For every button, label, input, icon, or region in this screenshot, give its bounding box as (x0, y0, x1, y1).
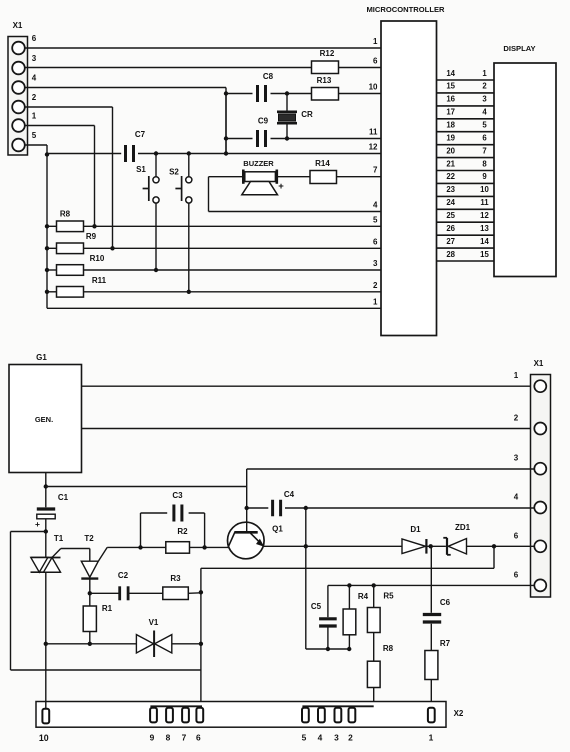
pin label MCU 10 (369, 83, 378, 92)
resistor R3 (163, 574, 201, 600)
resistor R14 (277, 159, 337, 184)
capacitor C5 (311, 585, 337, 651)
connector X2 pin 3 (334, 708, 341, 743)
svg-text:DISPLAY: DISPLAY (503, 44, 535, 53)
svg-text:1: 1 (373, 37, 378, 46)
svg-text:D1: D1 (410, 525, 421, 534)
svg-text:R3: R3 (170, 574, 181, 583)
connector X2 pin 7 (182, 708, 189, 743)
svg-text:MICROCONTROLLER: MICROCONTROLLER (366, 5, 445, 14)
wire V1 row left (44, 642, 137, 646)
wire MCU pin 26 to display pin 13 (437, 224, 495, 235)
wire G1 bottom rail (44, 473, 48, 508)
svg-text:7: 7 (482, 146, 486, 155)
switch S2 (169, 151, 192, 294)
pin label MCU 3 (373, 259, 378, 268)
svg-text:9: 9 (482, 172, 487, 181)
resistor R7 (425, 639, 451, 708)
svg-text:1: 1 (373, 297, 378, 306)
svg-text:6: 6 (482, 134, 487, 143)
svg-text:T1: T1 (54, 534, 64, 543)
resistor R8 (45, 210, 381, 232)
svg-text:R8: R8 (60, 210, 71, 219)
wire T1 gate to T2 (52, 549, 90, 562)
svg-text:11: 11 (480, 198, 489, 207)
wire MCU pin 23 to display pin 10 (437, 185, 495, 196)
wire X2 bus bar right (302, 705, 373, 707)
pin label MCU 6 (373, 57, 378, 66)
wire MCU pin 16 to display pin 3 (437, 95, 495, 106)
connector X2 pin 4 (318, 708, 325, 743)
svg-text:CR: CR (301, 110, 313, 119)
connector X1 right pin 3 contact (514, 454, 547, 475)
wire X1-5 to left rail (25, 145, 49, 308)
capacitor C2 (90, 571, 163, 600)
switch S1 (136, 151, 159, 272)
svg-text:R14: R14 (315, 159, 330, 168)
capacitor C8 (226, 72, 289, 102)
pin label MCU 4 (373, 201, 378, 210)
capacitor C3 (141, 491, 205, 547)
svg-text:R12: R12 (320, 49, 335, 58)
node A vertical (224, 91, 228, 155)
diac V1 (136, 618, 201, 657)
wire C4 row to X1-4 (306, 507, 534, 509)
pin label MCU 2 (373, 281, 378, 290)
resistor R10 (45, 254, 381, 275)
wire feedback step (201, 546, 494, 568)
svg-text:5: 5 (302, 733, 307, 743)
pin label MCU 1 (373, 37, 378, 46)
wire MCU pin 17 to display pin 4 (437, 108, 495, 119)
svg-text:6: 6 (32, 34, 37, 43)
capacitor C4 (247, 490, 308, 516)
display U2 (494, 44, 556, 277)
svg-text:15: 15 (446, 82, 455, 91)
connector X2 (36, 702, 464, 728)
wire G1 to X1-1 (82, 385, 534, 387)
wire R12 to MCU pin 6 (339, 67, 382, 69)
svg-text:X2: X2 (454, 709, 464, 718)
wire net K vertical (199, 568, 203, 706)
generator G1 (9, 353, 82, 473)
triac T1 (31, 534, 64, 572)
svg-text:21: 21 (446, 159, 455, 168)
svg-text:26: 26 (446, 224, 455, 233)
resistor R2 (166, 527, 190, 553)
svg-text:Q1: Q1 (272, 525, 283, 534)
svg-text:12: 12 (480, 211, 489, 220)
svg-text:R2: R2 (177, 527, 188, 536)
transistor Q1 (228, 522, 284, 559)
svg-text:2: 2 (514, 414, 519, 423)
wire collector branch to X1-3 (247, 468, 534, 470)
svg-text:20: 20 (446, 146, 455, 155)
svg-text:2: 2 (32, 93, 37, 102)
pin label MCU 6 (373, 237, 378, 246)
wire bottom rail to MCU pin 1b (47, 307, 381, 309)
wire X1-6 to MCU pin 1 (25, 47, 381, 49)
wire X1-2 down to R9 row (25, 107, 115, 251)
thyristor T2 (81, 534, 107, 596)
svg-text:8: 8 (482, 159, 487, 168)
connector X2 pin 9 (150, 708, 157, 743)
connector X2 pin 1 (428, 708, 435, 743)
buzzer BZ (209, 159, 285, 195)
svg-text:8: 8 (166, 733, 171, 743)
wire Q1 collector (245, 469, 249, 532)
zener diode ZD1 (443, 523, 534, 555)
wire MCU pin 28 to display pin 15 (437, 250, 495, 261)
wire MCU pin 22 to display pin 9 (437, 172, 495, 183)
resistor R9 (45, 232, 381, 254)
wire R13 to MCU pin 10 (339, 93, 382, 95)
svg-text:R10: R10 (90, 254, 105, 263)
pin label MCU 7 (373, 166, 378, 175)
connector X2 pin 5 (302, 708, 309, 743)
svg-text:10: 10 (369, 83, 378, 92)
wire buzzer loop to MCU pin 4 (209, 177, 382, 212)
svg-text:2: 2 (373, 281, 378, 290)
svg-text:10: 10 (480, 185, 489, 194)
resistor R8 (367, 644, 393, 706)
svg-text:3: 3 (482, 95, 487, 104)
svg-text:X1: X1 (13, 21, 23, 30)
resistor R13 (287, 76, 339, 100)
svg-text:4: 4 (373, 201, 378, 210)
svg-text:4: 4 (514, 493, 519, 502)
svg-text:4: 4 (482, 108, 487, 117)
microcontroller U1 (366, 5, 445, 336)
wire MCU pin 14 to display pin 1 (437, 69, 495, 80)
svg-text:C1: C1 (58, 493, 69, 502)
pin label MCU 5 (373, 215, 378, 224)
svg-text:24: 24 (446, 198, 455, 207)
connector X1 pin 5 contact (12, 131, 37, 151)
svg-text:2: 2 (348, 733, 353, 743)
svg-text:14: 14 (446, 69, 455, 78)
resistor R12 (312, 49, 339, 74)
svg-text:10: 10 (39, 733, 49, 743)
svg-text:GEN.: GEN. (35, 415, 53, 424)
svg-text:X1: X1 (534, 359, 544, 368)
svg-text:C6: C6 (440, 598, 451, 607)
svg-text:3: 3 (334, 733, 339, 743)
connector X1 right pin 6 contact (514, 531, 547, 552)
svg-text:+: + (35, 519, 40, 529)
wire MCU pin 20 to display pin 7 (437, 146, 495, 157)
svg-text:13: 13 (480, 224, 489, 233)
wire MCU pin 24 to display pin 11 (437, 198, 495, 209)
wire left loop (11, 532, 201, 671)
wire G1 branch (46, 486, 247, 488)
svg-text:3: 3 (514, 454, 519, 463)
svg-text:3: 3 (32, 54, 37, 63)
connector X1 right pin 6 contact (514, 570, 547, 591)
svg-text:4: 4 (32, 74, 37, 83)
svg-text:T2: T2 (84, 534, 94, 543)
wire MCU pin 27 to display pin 14 (437, 237, 495, 248)
svg-text:G1: G1 (36, 353, 47, 362)
svg-text:R11: R11 (92, 276, 107, 285)
resistor R1 (83, 593, 112, 646)
connector X1 pin 1 contact (12, 112, 37, 132)
pin label MCU 11 (369, 128, 378, 137)
svg-text:C9: C9 (258, 117, 269, 126)
svg-text:4: 4 (318, 733, 323, 743)
connector X1 right pin 1 contact (514, 371, 547, 392)
connector X2 pin 2 (348, 708, 355, 743)
connector X1 right pin 4 contact (514, 493, 547, 514)
capacitor C7 (47, 130, 381, 162)
svg-text:1: 1 (482, 69, 487, 78)
svg-text:16: 16 (446, 95, 455, 104)
svg-text:R9: R9 (86, 232, 97, 241)
connector X1 pin 4 contact (12, 74, 37, 94)
wire MCU pin 21 to display pin 8 (437, 159, 495, 170)
svg-text:5: 5 (32, 131, 37, 140)
wire R2 to Q1 base (190, 545, 229, 549)
svg-text:BUZZER: BUZZER (243, 159, 274, 168)
svg-text:C4: C4 (284, 490, 295, 499)
wire bottom bracket (306, 546, 349, 649)
wire Q1 emitter row (263, 545, 402, 547)
svg-text:14: 14 (480, 237, 489, 246)
svg-text:R8: R8 (383, 644, 394, 653)
wire C9 to MCU pin 11 (287, 138, 381, 140)
svg-text:3: 3 (373, 259, 378, 268)
wire C1 to T1 (44, 529, 48, 557)
connector X1 (right) (531, 359, 551, 597)
connector X1 (left) (8, 21, 28, 155)
svg-text:6: 6 (514, 531, 519, 540)
svg-text:C2: C2 (118, 571, 129, 580)
svg-text:1: 1 (429, 733, 434, 743)
resistor R4 (343, 585, 369, 651)
svg-text:ZD1: ZD1 (455, 523, 471, 532)
svg-text:19: 19 (446, 134, 455, 143)
svg-text:V1: V1 (149, 618, 159, 627)
svg-text:S1: S1 (136, 165, 146, 174)
pin label MCU 12 (369, 143, 378, 152)
svg-text:C5: C5 (311, 602, 322, 611)
wire MCU pin 18 to display pin 5 (437, 121, 495, 132)
svg-text:5: 5 (482, 121, 487, 130)
svg-text:5: 5 (373, 215, 378, 224)
svg-text:18: 18 (446, 121, 455, 130)
resonator CR (277, 94, 313, 141)
wire X1-4 to node A (25, 88, 226, 154)
svg-text:9: 9 (150, 733, 155, 743)
connector X1 right pin 2 contact (514, 414, 547, 435)
svg-text:11: 11 (369, 128, 378, 137)
wire X1-3 to R12 (25, 67, 312, 69)
svg-text:R1: R1 (102, 604, 113, 613)
svg-text:22: 22 (446, 172, 455, 181)
wire node B vertical (304, 508, 308, 549)
svg-text:6: 6 (196, 733, 201, 743)
svg-text:C7: C7 (135, 130, 146, 139)
svg-text:12: 12 (369, 143, 378, 152)
svg-text:1: 1 (32, 112, 37, 121)
svg-text:6: 6 (373, 237, 378, 246)
svg-text:25: 25 (446, 211, 455, 220)
connector X2 pin 6 (196, 708, 203, 743)
connector X1 pin 3 contact (12, 54, 37, 74)
svg-text:+: + (278, 181, 284, 192)
diode D1 (402, 525, 446, 554)
connector X2 pin 8 (166, 708, 173, 743)
wire T2 gate to R2 row (107, 545, 166, 549)
resistor R11 (45, 276, 381, 297)
svg-text:23: 23 (446, 185, 455, 194)
svg-text:7: 7 (373, 166, 378, 175)
svg-text:R4: R4 (358, 592, 369, 601)
wire X2 bus bar left (150, 705, 202, 707)
capacitor C6 (423, 546, 451, 650)
svg-text:15: 15 (480, 250, 489, 259)
svg-text:R5: R5 (383, 592, 394, 601)
svg-text:27: 27 (446, 237, 455, 246)
wire X1-6 row (328, 583, 534, 587)
svg-text:S2: S2 (169, 168, 179, 177)
pin label MCU 1 (373, 297, 378, 306)
capacitor C1 (35, 493, 69, 532)
connector X1 pin 6 contact (12, 34, 37, 54)
capacitor C9 (226, 117, 287, 148)
wire G1 to X1-2 (82, 428, 534, 430)
svg-text:28: 28 (446, 250, 455, 259)
connector X1 pin 2 contact (12, 93, 37, 113)
wire T1 to V1 row (45, 572, 47, 644)
wire MCU pin 19 to display pin 6 (437, 134, 495, 145)
svg-text:6: 6 (514, 570, 519, 579)
svg-text:R7: R7 (440, 639, 451, 648)
svg-text:1: 1 (514, 371, 519, 380)
svg-text:C8: C8 (263, 72, 274, 81)
svg-text:6: 6 (373, 57, 378, 66)
resistor R5 (367, 585, 394, 661)
wire R14 to MCU pin 7 (337, 176, 382, 178)
svg-text:7: 7 (182, 733, 187, 743)
connector X2 pin 10 (39, 709, 49, 743)
wire MCU pin 15 to display pin 2 (437, 82, 495, 93)
svg-text:2: 2 (482, 82, 487, 91)
wire rail to X2 pin 10 (45, 644, 47, 709)
svg-text:R13: R13 (317, 76, 332, 85)
svg-text:C3: C3 (172, 491, 183, 500)
svg-text:17: 17 (446, 108, 455, 117)
wire MCU pin 25 to display pin 12 (437, 211, 495, 222)
wire X1-1 down to R8 row (25, 126, 97, 229)
